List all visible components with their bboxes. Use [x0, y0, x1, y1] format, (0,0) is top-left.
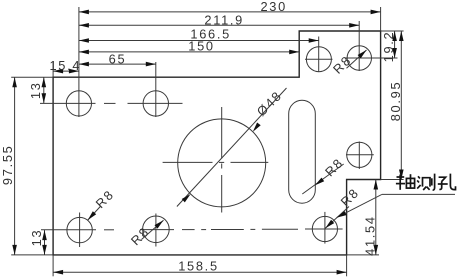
dim 13 top	[28, 77, 46, 103]
hole H4 step-right	[347, 46, 371, 70]
text kong (hole) hand-drawn glyph	[438, 174, 456, 190]
hole H8 bottom-right	[312, 216, 337, 241]
dim 166.5	[79, 27, 319, 43]
dim 211.9	[79, 12, 359, 27]
svg-text:80.95: 80.95	[388, 81, 403, 122]
leader zhicekong with arrow at H8	[337, 194, 455, 217]
svg-text:41.54: 41.54	[363, 215, 378, 256]
ext line 158.5 left	[52, 255, 54, 276]
centerline H6 vertical	[79, 213, 81, 248]
svg-text:65: 65	[109, 51, 127, 66]
hole H7 bottom-mid	[143, 216, 170, 243]
leader R8 bottom-left hole H6	[88, 187, 117, 221]
centerline bottom row segments	[41, 229, 96, 231]
svg-text:211.9: 211.9	[204, 12, 244, 27]
centerline big circle vertical	[221, 107, 223, 159]
centerline H3 horizontal	[305, 58, 333, 60]
centerline H4 horizontal ext for 19.2	[345, 57, 398, 59]
dim 65	[79, 51, 156, 66]
text zhou (axle) hand-drawn glyph	[396, 174, 415, 190]
svg-text:230: 230	[260, 0, 286, 14]
dim 158.5	[53, 259, 347, 275]
hole H3 step-left	[306, 47, 331, 72]
dim D48 diameter leader	[177, 88, 287, 207]
dim 80.95	[388, 31, 404, 180]
ext line step top right	[381, 30, 404, 32]
centerline H5 horizontal	[346, 154, 374, 156]
dim 19.2	[381, 31, 397, 63]
leader R8 slot	[302, 155, 346, 194]
leader R8 bottom-right hole H8	[325, 185, 362, 228]
centerline H2 vertical ext for 65	[155, 62, 157, 117]
svg-text:13: 13	[28, 81, 43, 99]
hole H6 bottom-left	[67, 217, 92, 242]
dim 97.55	[0, 77, 17, 255]
centerline H4 vertical ext for 211.9	[358, 21, 360, 71]
centerline H8 vertical	[324, 212, 326, 244]
centerline big circle horizontal	[163, 161, 213, 163]
hole H2 top-mid	[143, 91, 168, 116]
slot obround	[289, 100, 316, 203]
dim 13 bottom	[29, 229, 47, 255]
text ce (measure) hand-drawn glyph	[417, 174, 434, 191]
svg-text:19.2: 19.2	[381, 31, 396, 63]
centerline top row through H1	[40, 102, 96, 104]
dim 41.54	[363, 180, 379, 256]
hole H5 right-side	[347, 142, 372, 167]
ext line 97.55 top	[11, 76, 53, 78]
svg-text:13: 13	[29, 229, 44, 247]
centerline H3 vertical ext for 166.5	[318, 37, 320, 73]
big circle D48	[178, 119, 266, 207]
ext line 97.55 bottom	[11, 254, 53, 256]
centerline top row through H2	[128, 102, 183, 104]
centerline top row dash	[104, 102, 116, 104]
ext line 158.5 right	[346, 255, 348, 276]
centerline H7 vertical	[155, 214, 157, 247]
svg-text:150: 150	[188, 39, 214, 54]
dim 230	[79, 0, 381, 14]
plate outline	[53, 31, 381, 255]
ext line notch right	[381, 179, 404, 181]
svg-text:158.5: 158.5	[178, 259, 219, 274]
dim 150	[79, 39, 299, 55]
leader R8 step hole H4	[330, 50, 367, 77]
svg-text:15.4: 15.4	[49, 58, 81, 73]
centerline H5 vertical	[358, 142, 360, 170]
ext line 41.54 bottom	[347, 254, 379, 256]
ext line 15.4 left	[52, 61, 54, 77]
dim 15.4	[49, 58, 81, 74]
leader R8 bottom-mid hole H7	[128, 220, 164, 248]
hole H1 top-left	[66, 91, 91, 116]
centerline H1 vertical ext for top dims	[78, 7, 80, 117]
ext line 230 right	[380, 7, 382, 31]
svg-text:97.55: 97.55	[0, 145, 15, 186]
